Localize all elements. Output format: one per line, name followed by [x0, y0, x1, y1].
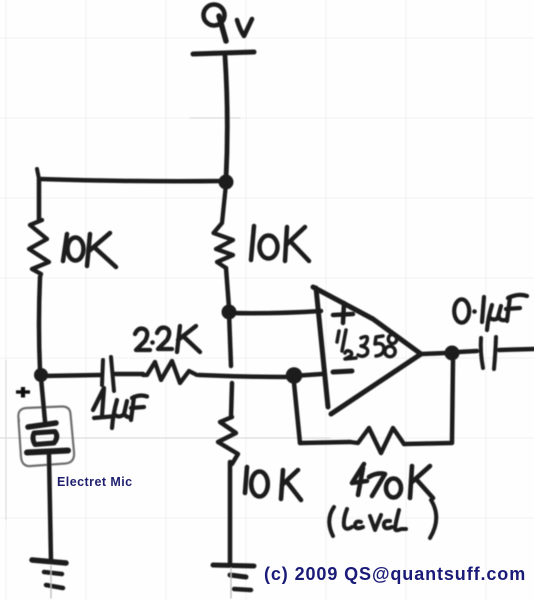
wire C2 to edge [499, 349, 534, 350]
label 0.1uF [454, 295, 527, 330]
plus polarity mark [16, 387, 30, 398]
op-amp - input mark [333, 371, 352, 372]
mic bottom plate [27, 451, 68, 453]
node mic junction [34, 368, 48, 382]
label 10K (R4) [245, 467, 301, 500]
label Electret Mic [57, 475, 133, 489]
wire feedback bottom left [300, 442, 350, 443]
mic element [33, 432, 57, 445]
resistor R2 10K [214, 184, 234, 268]
mic top plate [28, 423, 56, 427]
wire left vertical upper [37, 180, 42, 221]
wire R4 to ground [228, 462, 233, 564]
copyright [264, 564, 526, 585]
label 470K [352, 464, 433, 498]
resistor R3 2.2K [143, 361, 197, 383]
wire 9V vertical [225, 56, 227, 179]
wire left corner tick [37, 169, 39, 179]
ground middle [213, 565, 254, 598]
op-amp U1 [313, 287, 421, 414]
9V supply bar [193, 52, 254, 54]
capacitor C2 0.1uF [481, 337, 496, 369]
wire feedback bottom right [404, 443, 452, 444]
label 2.2K [135, 326, 200, 352]
node B (- input) [286, 367, 303, 384]
label (Level) [329, 500, 436, 538]
microphone MK1 box [18, 406, 74, 466]
wire output to C2 [458, 351, 477, 352]
label 1/2 358 [337, 330, 397, 359]
wire into mic [41, 378, 45, 421]
node output [445, 346, 460, 361]
wire mic node to C1 [41, 375, 100, 376]
op-amp + input mark [333, 303, 353, 323]
resistor R5 470K [350, 428, 404, 453]
node A (+ input) [222, 305, 237, 320]
wire R2 to node A [226, 268, 229, 308]
label 10K (R1) [63, 233, 116, 267]
resistor R1 10K [29, 220, 49, 277]
resistor R4 10K [218, 417, 238, 464]
wire C1 to R3 [114, 372, 143, 377]
label 10K (R2) [251, 226, 309, 261]
wire op-amp output [421, 353, 446, 354]
wire R3 to node B [199, 375, 291, 377]
label 9v [204, 5, 253, 42]
ground left [32, 560, 66, 598]
node supply junction [219, 175, 234, 190]
wire feedback right vertical [452, 360, 453, 442]
wire feedback left vertical [294, 383, 300, 443]
wire mic to ground [49, 455, 51, 562]
wire left vertical lower [39, 277, 40, 370]
wire top horizontal [39, 179, 225, 181]
capacitor C1 1uF [102, 357, 114, 391]
wire middle vertical through crossing [229, 313, 231, 366]
label 1uF [93, 388, 147, 428]
wire node B to op-amp - [293, 374, 322, 376]
wire node A to op-amp + [229, 311, 321, 313]
